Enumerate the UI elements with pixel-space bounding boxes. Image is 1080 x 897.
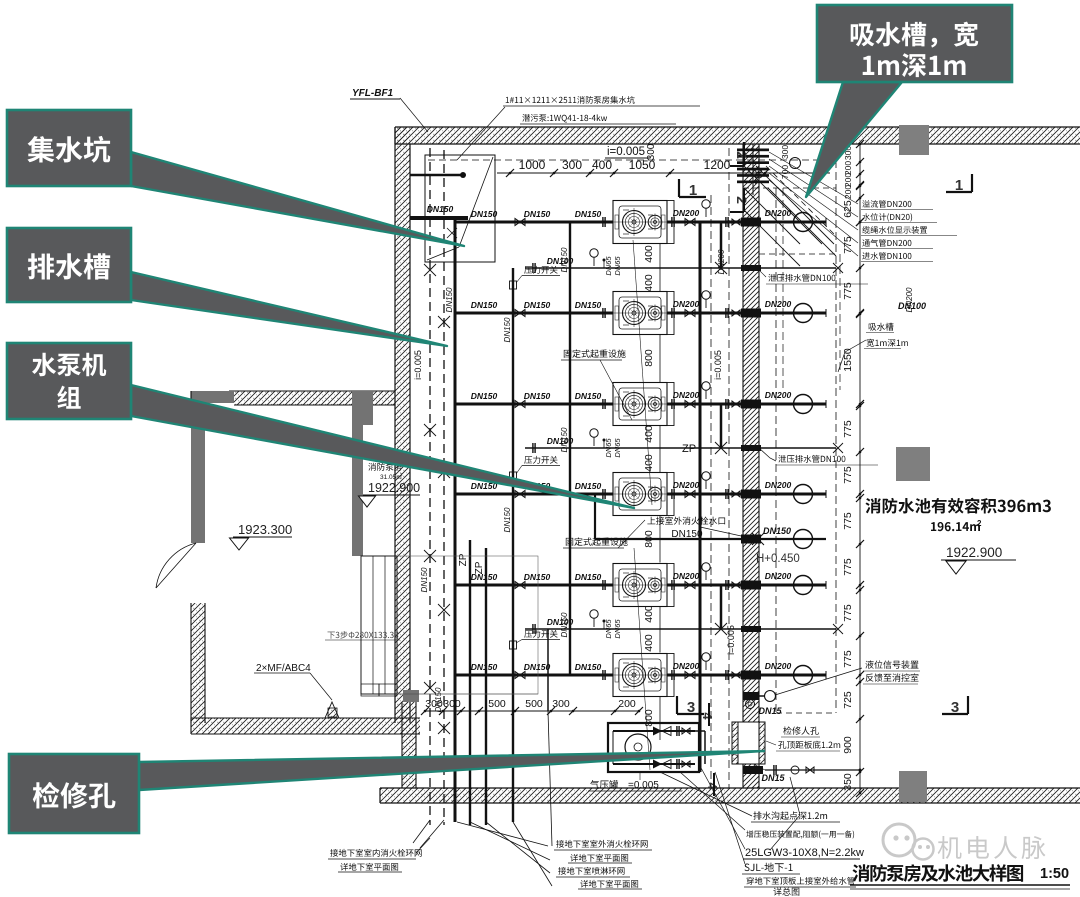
- svg-text:DN150: DN150: [524, 300, 551, 310]
- svg-text:1000: 1000: [519, 158, 546, 172]
- svg-text:500: 500: [525, 698, 543, 710]
- svg-text:400: 400: [643, 274, 655, 292]
- svg-text:1922.900: 1922.900: [946, 545, 1002, 560]
- svg-text:i=0.005: i=0.005: [726, 625, 736, 655]
- svg-text:300: 300: [562, 158, 582, 172]
- svg-text:DN150: DN150: [524, 572, 551, 582]
- svg-text:500: 500: [488, 698, 506, 710]
- svg-text:2: 2: [734, 151, 750, 159]
- svg-text:DN100: DN100: [898, 301, 926, 311]
- svg-text:3: 3: [687, 699, 695, 716]
- svg-text:775: 775: [842, 420, 854, 438]
- svg-text:DN150: DN150: [503, 317, 512, 342]
- svg-text:i=0.005: i=0.005: [713, 350, 723, 380]
- svg-text:800: 800: [643, 349, 655, 367]
- svg-text:DN65: DN65: [613, 256, 622, 276]
- svg-text:DN150: DN150: [471, 662, 498, 672]
- svg-text:DN15: DN15: [758, 706, 782, 716]
- svg-text:400: 400: [592, 158, 612, 172]
- svg-text:31.05m: 31.05m: [380, 474, 402, 481]
- svg-text:i=0.005: i=0.005: [607, 146, 645, 158]
- svg-text:1:50: 1:50: [1040, 866, 1069, 882]
- svg-text:775: 775: [842, 558, 854, 576]
- svg-text:DN150: DN150: [671, 529, 703, 540]
- svg-text:1923.300: 1923.300: [238, 522, 292, 537]
- svg-text:4: 4: [700, 712, 715, 720]
- svg-text:DN150: DN150: [575, 481, 602, 491]
- svg-text:i=0.005: i=0.005: [413, 350, 423, 380]
- svg-text:DN150: DN150: [471, 300, 498, 310]
- svg-text:DN65: DN65: [604, 256, 613, 276]
- svg-text:3: 3: [951, 699, 959, 716]
- svg-text:DN150: DN150: [471, 391, 498, 401]
- svg-text:900: 900: [842, 736, 854, 754]
- svg-text:200: 200: [843, 185, 853, 199]
- svg-text:ZP: ZP: [682, 443, 696, 455]
- svg-text:DN200: DN200: [673, 571, 700, 581]
- svg-text:DN150: DN150: [503, 507, 512, 532]
- svg-text:1: 1: [955, 177, 963, 194]
- svg-text:25LGW3-10X8,N=2.2kw: 25LGW3-10X8,N=2.2kw: [745, 847, 864, 859]
- svg-text:775: 775: [842, 236, 854, 254]
- svg-text:775: 775: [842, 650, 854, 668]
- svg-text:725: 725: [842, 691, 854, 709]
- svg-text:DN100: DN100: [547, 617, 574, 627]
- svg-text:1200: 1200: [704, 158, 731, 172]
- svg-text:DN200: DN200: [673, 208, 700, 218]
- svg-text:400: 400: [643, 634, 655, 652]
- svg-text:775: 775: [842, 512, 854, 530]
- svg-text:775: 775: [842, 604, 854, 622]
- svg-text:DN200: DN200: [673, 390, 700, 400]
- svg-text:DN150: DN150: [524, 209, 551, 219]
- svg-text:DN150: DN150: [445, 287, 454, 312]
- svg-text:DN200: DN200: [765, 299, 792, 309]
- svg-text:DN100: DN100: [547, 436, 574, 446]
- svg-text:DN150: DN150: [575, 391, 602, 401]
- svg-text:300: 300: [425, 698, 443, 710]
- svg-text:ZP: ZP: [458, 553, 469, 566]
- svg-text:DN150: DN150: [471, 572, 498, 582]
- svg-text:1: 1: [689, 182, 697, 199]
- svg-text:300: 300: [646, 143, 657, 160]
- svg-text:300: 300: [552, 698, 570, 710]
- svg-text:DN150: DN150: [420, 567, 429, 592]
- svg-text:2: 2: [977, 519, 982, 528]
- svg-text:=0.005: =0.005: [628, 780, 659, 791]
- svg-text:400: 400: [643, 425, 655, 443]
- svg-text:625: 625: [842, 200, 854, 218]
- svg-text:DN200: DN200: [765, 390, 792, 400]
- svg-text:DN150: DN150: [575, 209, 602, 219]
- svg-text:DN150: DN150: [763, 526, 791, 536]
- svg-text:DN200: DN200: [765, 661, 792, 671]
- svg-text:400: 400: [643, 605, 655, 623]
- svg-text:DN200: DN200: [765, 571, 792, 581]
- svg-text:775: 775: [842, 282, 854, 300]
- svg-text:2×MF/ABC4: 2×MF/ABC4: [256, 663, 311, 674]
- svg-text:DN200: DN200: [673, 661, 700, 671]
- svg-text:DN150: DN150: [524, 391, 551, 401]
- svg-text:DN200: DN200: [673, 299, 700, 309]
- svg-text:DN100: DN100: [547, 256, 574, 266]
- svg-text:DN15: DN15: [761, 773, 785, 783]
- svg-text:H+0.450: H+0.450: [756, 553, 800, 565]
- svg-text:DN200: DN200: [717, 249, 726, 274]
- svg-text:DN150: DN150: [575, 662, 602, 672]
- svg-text:300: 300: [443, 698, 461, 710]
- svg-text:1550: 1550: [842, 348, 854, 372]
- svg-text:DN200: DN200: [673, 480, 700, 490]
- svg-text:DN150: DN150: [575, 572, 602, 582]
- svg-text:DN150: DN150: [471, 209, 498, 219]
- svg-text:300: 300: [780, 145, 790, 159]
- svg-text:200: 200: [618, 698, 636, 710]
- svg-text:800: 800: [643, 709, 655, 727]
- svg-text:2: 2: [734, 196, 750, 204]
- svg-text:350: 350: [842, 773, 854, 791]
- svg-text:DN200: DN200: [765, 480, 792, 490]
- svg-text:YFL-BF1: YFL-BF1: [352, 88, 394, 99]
- svg-text:1922.900: 1922.900: [368, 481, 420, 495]
- svg-text:DN150: DN150: [427, 204, 454, 214]
- svg-text:775: 775: [842, 466, 854, 484]
- svg-text:DN150: DN150: [575, 300, 602, 310]
- svg-text:DN150: DN150: [524, 662, 551, 672]
- svg-text:400: 400: [643, 245, 655, 263]
